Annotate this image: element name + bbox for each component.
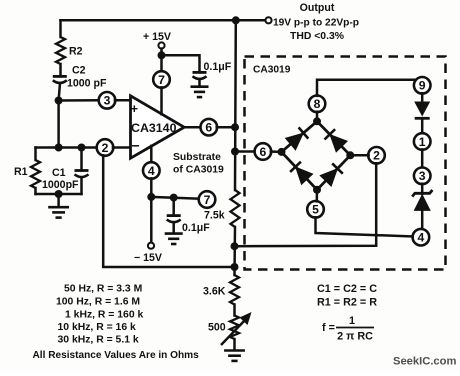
svg-text:7.5k: 7.5k [204, 210, 225, 222]
wire pin1 to pin3 [421, 149, 424, 168]
wire bridge bottom to pin5 [316, 190, 319, 202]
capacitor 0.1uF (lower bypass) [167, 198, 211, 234]
svg-text:+ 15V: + 15V [143, 31, 171, 43]
diode D5 (9 to 1) [414, 102, 430, 119]
svg-text:0.1μF: 0.1μF [182, 222, 210, 234]
wire op-amp output to pin 6 [184, 126, 201, 129]
node top rail [232, 16, 240, 24]
wire bridge edges [282, 121, 318, 152]
wire pin 2 to op-amp [113, 146, 131, 149]
wire rail mid [233, 227, 236, 275]
svg-text:1: 1 [419, 135, 426, 149]
svg-text:10 kHz, R = 16 k: 10 kHz, R = 16 k [58, 322, 136, 333]
wire pin8 to bridge top [316, 112, 319, 122]
wire op-amp to pin 4 [150, 146, 153, 163]
pin 1 CA3019 [414, 133, 431, 150]
op-amp U1 CA3140 [131, 96, 185, 158]
pin 8 CA3019 [309, 96, 326, 113]
pin 6 op-amp [201, 119, 218, 136]
pin 4 CA3019 [413, 229, 430, 246]
svg-text:C1 = C2 = C: C1 = C2 = C [317, 283, 377, 295]
svg-text:CA3019: CA3019 [253, 65, 291, 76]
svg-text:0.1μF: 0.1μF [204, 61, 232, 73]
svg-text:3: 3 [104, 94, 111, 108]
diode D4 (5 to 2) [320, 163, 343, 186]
label component equalities [317, 283, 377, 309]
wire pin2 down to feedback node [103, 155, 233, 267]
resistor R2 [56, 37, 83, 64]
wire pin7 into op-amp [160, 87, 163, 114]
ground under lower bypass cap [165, 234, 183, 244]
wire left vertical to R2 [59, 20, 62, 37]
svg-text:1000pF: 1000pF [42, 179, 79, 191]
wire node to pin 3 [59, 99, 100, 102]
node bridge left [278, 148, 286, 156]
svg-text:1 kHz, R = 160 k: 1 kHz, R = 160 k [65, 310, 143, 321]
resistor 7.5k [204, 190, 240, 227]
svg-text:CA3140: CA3140 [131, 121, 177, 135]
node CA3019 pin6 junction [231, 148, 239, 156]
wire D5 to pin1 [421, 118, 424, 133]
pin 2 op-amp [97, 139, 114, 156]
svg-text:−: − [132, 138, 140, 154]
wire +15V to pin7 [160, 49, 163, 72]
svg-text:3.6K: 3.6K [203, 286, 226, 298]
wire rail to pot [233, 305, 236, 316]
wire R1C1 bottom [36, 193, 82, 196]
wire pin2 to bridge right [350, 154, 368, 157]
wire R2 to C2 [59, 64, 62, 76]
-15V terminal [134, 243, 162, 264]
wire pin5 to pin4 [316, 217, 413, 236]
node pin6 junction [231, 123, 239, 131]
svg-text:THD <0.3%: THD <0.3% [290, 31, 344, 42]
node R1C1 top left [55, 144, 63, 152]
wire pin8 top to pin9 [317, 78, 422, 96]
zener diode D6 (4 to 3) [412, 190, 432, 211]
svg-text:R1: R1 [14, 166, 28, 178]
label Output [273, 2, 359, 42]
svg-text:8: 8 [314, 97, 321, 111]
wire pin4 down to -15V [150, 178, 153, 242]
wire pin 3 to op-amp [115, 99, 131, 102]
node at pin3 tap [55, 97, 63, 105]
wire main vertical rail upper [234, 20, 237, 190]
svg-text:− 15V: − 15V [134, 252, 162, 264]
wire C2 down to R1C1 junction [59, 83, 60, 148]
output terminal [265, 17, 271, 23]
svg-text:All Resistance Values Are in O: All Resistance Values Are in Ohms [33, 350, 200, 361]
svg-text:5: 5 [312, 203, 319, 217]
capacitor C1 [42, 148, 89, 195]
capacitor 0.1uF (top bypass) [193, 61, 232, 86]
pin 5 CA3019 [307, 201, 324, 218]
svg-text:50 Hz, R = 3.3 M: 50 Hz, R = 3.3 M [64, 284, 142, 295]
ground under top bypass cap [191, 87, 209, 97]
svg-text:500: 500 [208, 322, 226, 334]
wire pot to ground [233, 339, 236, 350]
potentiometer 500 [208, 312, 252, 345]
pin 7 op-amp [153, 71, 170, 88]
wire substrate to CA3019 pin 7 [151, 197, 199, 199]
svg-text:7: 7 [204, 193, 211, 207]
svg-text:30 kHz, R = 5.1 k: 30 kHz, R = 5.1 k [58, 335, 139, 346]
wire pin6 to main rail [217, 126, 235, 129]
svg-text:3: 3 [419, 169, 426, 183]
label Substrate of CA3019 [173, 152, 224, 176]
CA3019 dashed box [245, 57, 446, 270]
wire to ground [57, 194, 60, 207]
svg-text:+: + [131, 101, 139, 116]
node +15V tee [158, 51, 166, 59]
+15V terminal [143, 31, 171, 49]
node bridge bottom [313, 186, 321, 194]
wire pin6 to bridge [271, 150, 282, 153]
label frequency table [33, 284, 200, 362]
node R1C1 bottom [55, 190, 63, 198]
pin 7 CA3019 substrate [199, 191, 216, 208]
wire D6 to pin4 [421, 211, 424, 229]
node bridge top [313, 117, 321, 125]
node AGC tap [231, 242, 239, 250]
svg-text:6: 6 [260, 145, 267, 159]
svg-text:C1: C1 [52, 167, 66, 179]
node substrate tee [147, 193, 155, 201]
svg-text:100 Hz, R = 1.6 M: 100 Hz, R = 1.6 M [56, 297, 140, 308]
ground bottom [224, 351, 245, 361]
svg-text:R1 = R2 = R: R1 = R2 = R [317, 297, 377, 309]
svg-text:4: 4 [418, 231, 425, 245]
wire pin9 to D5 [421, 93, 424, 103]
node bypass cap 2 [170, 194, 178, 202]
svg-text:1: 1 [349, 315, 355, 327]
diode D3 (5 to 6) [290, 162, 313, 185]
wire rail to CA3019 pin6 [235, 150, 255, 153]
pin 9 CA3019 [414, 77, 431, 94]
svg-text:Output: Output [300, 2, 335, 14]
svg-text:of CA3019: of CA3019 [173, 165, 224, 176]
resistor 3.6K [203, 275, 239, 305]
node C1 top [78, 144, 86, 152]
diode D1 (6 to 8) [286, 127, 309, 149]
pin 4 op-amp [143, 162, 160, 179]
svg-text:R2: R2 [69, 46, 83, 58]
wire pin2 down to AGC tap [235, 163, 377, 246]
node bridge right [346, 151, 354, 159]
svg-text:7: 7 [158, 73, 165, 87]
svg-text:SeekIC.com: SeekIC.com [393, 356, 456, 368]
svg-text:C2: C2 [72, 65, 86, 77]
wire R1C1 top [36, 146, 98, 149]
wire to bypass cap [162, 55, 200, 72]
svg-text:9: 9 [419, 79, 426, 93]
svg-text:2 π RC: 2 π RC [337, 331, 373, 343]
svg-text:1000 pF: 1000 pF [67, 78, 107, 90]
svg-text:Substrate: Substrate [173, 152, 221, 163]
node feedback tap [231, 263, 239, 271]
svg-text:19V p-p to 22Vp-p: 19V p-p to 22Vp-p [273, 18, 359, 29]
resistor R1 [14, 148, 40, 195]
pin 6 CA3019 [255, 143, 272, 160]
svg-text:6: 6 [205, 121, 212, 135]
diode D2 (2 to 8) [325, 129, 348, 152]
pin 3 CA3019 [414, 168, 431, 185]
svg-text:4: 4 [148, 164, 155, 178]
pin 2 CA3019 [368, 147, 385, 164]
wire pin3 to D6 [421, 184, 424, 194]
label frequency formula [322, 315, 374, 343]
svg-text:2: 2 [102, 141, 109, 155]
wire top rail [61, 19, 266, 22]
svg-text:2: 2 [373, 149, 380, 163]
capacitor C2 [53, 65, 107, 90]
svg-text:f =: f = [322, 322, 335, 334]
pin 3 op-amp [99, 92, 116, 109]
ground under C1 [48, 207, 69, 217]
